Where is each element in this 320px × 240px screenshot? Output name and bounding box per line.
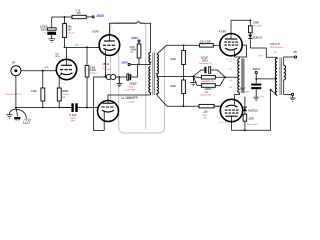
svg-text:MUR120: MUR120 xyxy=(253,37,263,40)
svg-text:+ 2.1µF MKP: + 2.1µF MKP xyxy=(123,89,136,91)
svg-text:C1b: C1b xyxy=(229,80,232,82)
svg-text:Kiwame 2W: Kiwame 2W xyxy=(200,95,211,97)
svg-text:TKD: TKD xyxy=(203,118,208,120)
tube KT88 upper xyxy=(219,30,242,61)
svg-text:0.5W: 0.5W xyxy=(90,68,97,72)
grid wire lower KT88 xyxy=(214,105,221,107)
svg-text:300V: 300V xyxy=(97,14,105,18)
secondary winding xyxy=(157,54,159,76)
svg-text:12k 0.5W: 12k 0.5W xyxy=(200,40,212,44)
svg-text:5W: 5W xyxy=(205,92,208,94)
resistor 680R cathode xyxy=(57,88,70,108)
resistor 56k dropper xyxy=(63,17,76,47)
svg-text:18mA: 18mA xyxy=(102,62,109,66)
tube V1 6J5 xyxy=(53,54,77,88)
svg-text:100R: 100R xyxy=(248,117,254,120)
svg-text:C2b: C2b xyxy=(229,87,232,89)
resistor 12k lower grid stopper xyxy=(199,104,221,119)
svg-text:500V +: 500V + xyxy=(129,86,136,88)
svg-text:6SN7: 6SN7 xyxy=(92,29,99,33)
LL1660 module box xyxy=(110,23,146,130)
svg-text:220k: 220k xyxy=(170,57,176,61)
resistor 100k grid leak xyxy=(6,71,45,108)
svg-text:5: 5 xyxy=(68,57,69,59)
grid stopper bead xyxy=(45,67,48,69)
svg-text:100k: 100k xyxy=(31,89,37,93)
svg-text:2W: 2W xyxy=(62,97,65,99)
tube V2b 6SN7 lower xyxy=(97,101,118,131)
svg-text:4: 4 xyxy=(53,67,54,69)
cathode choke xyxy=(229,57,245,100)
svg-text:LL1660/PP: LL1660/PP xyxy=(122,96,139,100)
svg-text:20W: 20W xyxy=(131,48,137,52)
svg-text:2W: 2W xyxy=(67,28,71,32)
svg-text:680R: 680R xyxy=(62,89,68,93)
svg-text:1: 1 xyxy=(94,43,95,45)
svg-text:0.1µF: 0.1µF xyxy=(70,113,77,117)
screen jumper xyxy=(240,45,247,57)
svg-text:Takman REX 1W: Takman REX 1W xyxy=(6,94,22,96)
svg-text:Mundorf MKP: Mundorf MKP xyxy=(238,91,250,94)
ground at bias node xyxy=(190,76,196,85)
svg-text:1: 1 xyxy=(97,104,98,106)
core xyxy=(280,58,282,96)
resistor cathode R2 xyxy=(193,76,225,96)
current source 18mA xyxy=(102,62,119,79)
svg-text:100R: 100R xyxy=(253,21,259,24)
terminal 435V + CT xyxy=(253,67,277,80)
node CCS out xyxy=(119,76,121,78)
svg-text:8: 8 xyxy=(64,83,65,85)
svg-text:220k: 220k xyxy=(170,84,176,88)
resistor 12k upper grid stopper xyxy=(200,40,220,48)
input jack P xyxy=(11,60,21,76)
output transformer 8.5k P-P xyxy=(270,43,286,95)
wire jack ground drop xyxy=(15,75,17,107)
wire lower plate xyxy=(232,90,278,130)
resistor 220k lower xyxy=(170,76,185,106)
wire V2b plate to primary bottom xyxy=(108,95,151,101)
svg-text:Kiwame: Kiwame xyxy=(67,33,75,35)
primary winding xyxy=(149,53,151,65)
svg-text:(0v): (0v) xyxy=(260,96,264,98)
svg-text:50µF: 50µF xyxy=(240,88,246,91)
svg-text:Panasonic FC: Panasonic FC xyxy=(199,63,213,65)
svg-text:VA+: VA+ xyxy=(259,55,264,58)
ground under 100uF xyxy=(48,39,55,43)
secondary xyxy=(284,65,286,80)
node grid V1 xyxy=(42,70,44,72)
resistor 100k to lower grid xyxy=(85,47,98,107)
svg-text:25V: 25V xyxy=(75,44,80,47)
wire V2b cathode return to CCS xyxy=(94,77,106,131)
svg-text:435V: 435V xyxy=(253,67,261,71)
node 100k drop xyxy=(86,46,88,48)
core xyxy=(153,53,155,96)
node cathode net right xyxy=(224,76,226,78)
svg-text:Lundahl: Lundahl xyxy=(127,102,135,104)
LL1660 interstage transformer xyxy=(122,53,159,104)
svg-text:12k: 12k xyxy=(203,110,208,114)
svg-text:3: 3 xyxy=(106,58,107,60)
wire to choke tap xyxy=(225,76,238,78)
secondary bottom lead xyxy=(157,95,199,106)
svg-text:9PS: 9PS xyxy=(55,56,60,58)
svg-text:MKP: MKP xyxy=(71,121,76,123)
svg-text:2: 2 xyxy=(112,29,113,31)
svg-text:JJ: JJ xyxy=(44,32,46,34)
secondary top lead to 220k node xyxy=(157,45,200,54)
svg-text:Rk = 300: Rk = 300 xyxy=(220,122,229,124)
capacitor 0.1uF lower grid xyxy=(59,103,98,122)
resistor cathode R1 xyxy=(193,75,225,83)
resistor 2.7k xyxy=(72,8,86,18)
svg-text:Takman REX: Takman REX xyxy=(251,26,263,28)
terminal 8R xyxy=(284,51,297,66)
B+ rail 300V xyxy=(52,16,72,18)
primary xyxy=(275,57,277,95)
svg-text:305V: 305V xyxy=(121,61,129,65)
svg-text:500V: 500V xyxy=(41,27,47,31)
svg-text:KT88: KT88 xyxy=(219,30,226,34)
resistor 100R snubber upper xyxy=(231,19,262,34)
diode MUR120 upper xyxy=(248,35,263,48)
svg-text:600R 40 flange: 600R 40 flange xyxy=(270,47,283,49)
capacitor 100uF ultrapath xyxy=(119,74,137,92)
svg-text:Takman REX: Takman REX xyxy=(247,124,259,126)
diode MUR120 lower xyxy=(243,97,259,113)
node bias mid xyxy=(183,76,185,78)
wire bias node to cathode network xyxy=(157,75,194,77)
tube U2a 6SN7 xyxy=(92,29,119,77)
svg-text:Takman: Takman xyxy=(90,73,98,75)
tube KT88 lower xyxy=(220,99,243,124)
svg-text:32V: 32V xyxy=(211,89,215,91)
svg-text:8R: 8R xyxy=(294,51,297,54)
resistor 100R snubber lower xyxy=(243,111,258,130)
svg-text:405V: 405V xyxy=(131,36,139,40)
resistor 8.2k xyxy=(130,40,141,65)
wire jack to grid xyxy=(21,70,57,72)
svg-text:630V: 630V xyxy=(70,118,75,120)
capacitor 220uF cathode bypass xyxy=(193,56,225,78)
resistor 220k upper xyxy=(170,45,185,76)
svg-text:0.5W: 0.5W xyxy=(202,115,207,117)
terminal sec common + ground xyxy=(284,80,296,101)
ground symbol group (three earths) xyxy=(6,108,30,124)
svg-text:TKD: TKD xyxy=(201,44,206,46)
svg-text:100µF: 100µF xyxy=(129,81,137,85)
svg-text:100V: 100V xyxy=(202,58,208,62)
capacitor 50uF PSU xyxy=(238,79,261,97)
svg-text:P: P xyxy=(12,60,15,65)
svg-text:Cascode: Cascode xyxy=(102,69,111,71)
svg-text:KIWAME 2W: KIWAME 2W xyxy=(202,80,214,83)
terminal 305V xyxy=(128,64,130,66)
svg-text:Kiwame: Kiwame xyxy=(62,94,70,96)
node 305V xyxy=(137,64,139,66)
capacitor 100uF 500V PSU xyxy=(40,17,56,39)
svg-text:8.5k P-P: 8.5k P-P xyxy=(270,43,280,46)
wire 6SN7 plate up and to LL1660 primary top xyxy=(109,23,150,52)
ground under 50uF xyxy=(253,96,264,101)
svg-text:MUR120: MUR120 xyxy=(248,109,258,112)
wire VA+ to OPT primary top xyxy=(250,48,277,57)
ground rail left xyxy=(16,107,71,109)
svg-text:3W: 3W xyxy=(77,11,81,15)
ground under CCS xyxy=(116,77,122,87)
terminal 300V xyxy=(86,14,105,18)
svg-text:Mills: Mills xyxy=(130,52,134,54)
node V1 plate xyxy=(64,46,66,48)
wire V1 plate to 6SN7 grid xyxy=(65,48,100,60)
hop over box edge xyxy=(137,22,140,24)
